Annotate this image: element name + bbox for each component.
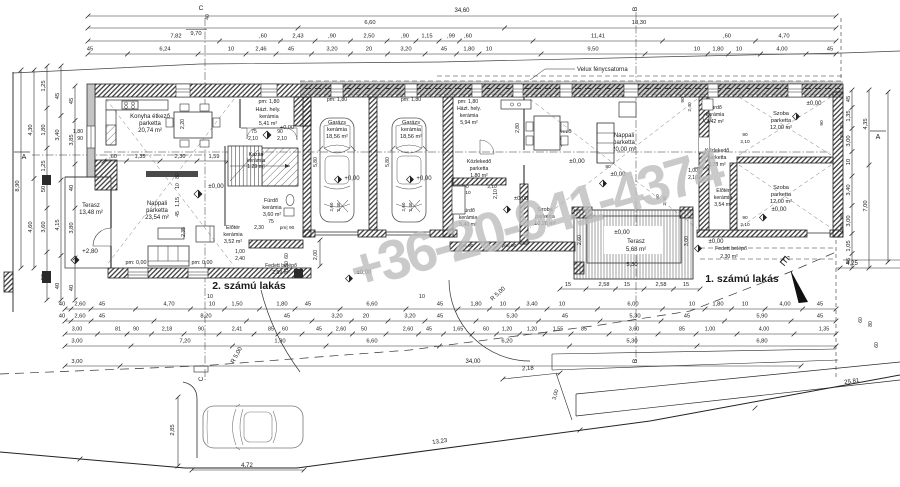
svg-text:,90: ,90: [401, 34, 409, 40]
svg-text:4,60: 4,60: [28, 221, 34, 232]
wall hallway right apartment: [699, 97, 709, 230]
svg-text:11,41: 11,41: [591, 34, 605, 40]
section mark C bottom: [198, 376, 205, 381]
wall eloter south: [249, 240, 303, 248]
right outer chain line: [887, 92, 889, 262]
vertical dashed line right lot: [835, 240, 837, 380]
svg-text:90: 90: [680, 97, 686, 103]
furdo 5,40 label: [459, 208, 478, 228]
svg-text:12,00 m²: 12,00 m²: [770, 125, 792, 131]
svg-text:2,58: 2,58: [599, 282, 610, 288]
door arcs hazt hely: [247, 128, 258, 139]
svg-text:±0,00: ±0,00: [208, 183, 224, 190]
terrace dim row: [558, 282, 703, 291]
svg-text:parketta: parketta: [470, 166, 489, 172]
below garage level mark: [346, 270, 373, 282]
svg-text:10: 10: [846, 159, 852, 165]
svg-text:40: 40: [59, 302, 65, 308]
svg-text:kerámia: kerámia: [327, 127, 348, 133]
svg-text:90: 90: [198, 327, 204, 333]
svg-text:18,56 m²: 18,56 m²: [400, 134, 422, 140]
garage 1 level: [335, 176, 361, 183]
wall middle horizontal bath: [452, 178, 506, 185]
svg-text:15: 15: [624, 282, 630, 288]
floor level diamond left apt: [194, 190, 202, 198]
svg-text:Házt. hely.: Házt. hely.: [457, 106, 481, 112]
skylight dashed outline: [300, 80, 843, 82]
garage 1 dims rot: [313, 157, 341, 212]
pm 90 labels middle: [459, 243, 517, 249]
left black wall marker 2: [42, 271, 51, 283]
wall garage west: [303, 97, 311, 237]
svg-text:10: 10: [419, 294, 425, 300]
upper outside dashed line: [437, 75, 843, 77]
svg-text:60: 60: [284, 253, 290, 259]
svg-text:1,20: 1,20: [502, 327, 513, 333]
door arc hallway: [694, 153, 709, 168]
svg-text:10: 10: [500, 302, 506, 308]
svg-text:parketta: parketta: [771, 118, 792, 124]
kitchen counter right: [501, 100, 531, 109]
car in garage 2: [391, 118, 428, 222]
svg-text:75: 75: [268, 219, 274, 225]
svg-text:Garázs: Garázs: [328, 120, 346, 126]
wall haz kitchen left apt thin: [239, 99, 241, 128]
label 3,00 site rot: [552, 373, 572, 420]
svg-text:2,18: 2,18: [522, 366, 535, 373]
kitchen counter left: [106, 100, 168, 145]
svg-text:kerámia: kerámia: [460, 113, 479, 119]
terrace label box: [604, 226, 662, 254]
svg-text:4,15: 4,15: [55, 219, 61, 230]
section line A-A through left apt: [104, 151, 830, 153]
svg-text:4,00: 4,00: [759, 327, 770, 333]
svg-text:1,25: 1,25: [41, 80, 47, 91]
stairs: [228, 146, 290, 186]
fedett belepo diamond: [695, 245, 702, 252]
svg-text:1,35: 1,35: [135, 154, 146, 160]
svg-text:90: 90: [839, 213, 844, 219]
dining table left: [166, 104, 220, 147]
svg-text:pm| 90: pm| 90: [280, 225, 295, 231]
svg-text:60: 60: [858, 317, 864, 323]
svg-text:45: 45: [817, 314, 823, 320]
svg-text:4,35: 4,35: [863, 118, 869, 129]
svg-text:kerámia: kerámia: [401, 127, 422, 133]
szoba 10,26 diamond: [504, 206, 511, 213]
svg-text:45: 45: [284, 314, 290, 320]
strip B walkway: [576, 362, 900, 416]
garage 2 x mark: [409, 200, 420, 212]
hazt hely floor diamond: [263, 131, 271, 139]
svg-text:2,69 m²: 2,69 m²: [272, 270, 290, 276]
wall thin terrace side: [110, 190, 112, 228]
svg-text:45: 45: [437, 314, 443, 320]
svg-text:34,00: 34,00: [465, 359, 481, 365]
section line A dash-dot left: [32, 154, 205, 156]
svg-text:40: 40: [69, 285, 75, 291]
svg-text:3,00: 3,00: [72, 327, 83, 333]
svg-text:6,60: 6,60: [366, 339, 377, 345]
svg-text:1,55: 1,55: [553, 327, 564, 333]
svg-text:9,70: 9,70: [190, 31, 201, 37]
dashed setback line: [0, 252, 836, 374]
svg-text:kerámia: kerámia: [262, 205, 281, 211]
svg-text:20: 20: [366, 47, 372, 53]
svg-text:2,10: 2,10: [740, 139, 750, 145]
svg-text:2,60: 2,60: [336, 327, 347, 333]
windows top wall: [176, 84, 802, 97]
terrace floor diamond: [71, 256, 79, 264]
svg-text:40: 40: [59, 314, 65, 320]
svg-text:2,20: 2,20: [180, 119, 186, 129]
svg-text:45: 45: [846, 96, 852, 102]
bottom dim row B: [59, 314, 839, 324]
svg-text:45: 45: [684, 314, 690, 320]
svg-text:5,90: 5,90: [756, 314, 767, 320]
door arc middle block: [480, 140, 494, 154]
left dim chain 45 3,40 4,15: [55, 64, 63, 303]
eloter dims: [235, 249, 290, 271]
wall between garages: [369, 97, 377, 230]
svg-text:2,18: 2,18: [162, 327, 173, 333]
label 9,70 below row2: [186, 26, 300, 37]
top dimension row 1 total 34,60: [86, 8, 839, 18]
svg-text:20: 20: [363, 314, 369, 320]
kozlekedo 1,80 label: [467, 159, 491, 179]
svg-text:2,60: 2,60: [403, 327, 414, 333]
svg-text:50: 50: [361, 327, 367, 333]
svg-text:6,60: 6,60: [364, 20, 375, 26]
svg-text:18,56 m²: 18,56 m²: [326, 134, 348, 140]
garage 2 room: [400, 97, 422, 140]
svg-text:2,10: 2,10: [277, 136, 287, 142]
wall right apartment south: [697, 230, 807, 237]
fedett belepo left label: [265, 263, 297, 276]
svg-text:2,10: 2,10: [248, 136, 258, 142]
left dim chain 1,25 1,80 1,25 3,60: [41, 64, 49, 303]
svg-text:2,41: 2,41: [232, 327, 243, 333]
label 4,25: [836, 261, 900, 270]
wall bottom left apartment: [108, 268, 311, 278]
section mark B top: [632, 7, 639, 362]
wall pier hazt hely right: [294, 97, 311, 126]
wall szoba divider right: [737, 157, 833, 163]
svg-text:Konyha étkező: Konyha étkező: [130, 114, 170, 120]
svg-text:C: C: [199, 5, 204, 12]
garage 1 room: [326, 97, 348, 140]
svg-text:45: 45: [87, 47, 93, 53]
svg-text:Házt. hely.: Házt. hely.: [255, 107, 280, 113]
room label nappali left: [145, 201, 169, 221]
svg-text:+2,80: +2,80: [82, 248, 98, 255]
terrace left outline: [65, 177, 111, 268]
svg-text:6,80: 6,80: [756, 339, 767, 345]
svg-text:5,30: 5,30: [506, 314, 517, 320]
section mark A left: [14, 152, 30, 161]
nappali right label: [611, 133, 636, 178]
svg-text:1,80: 1,80: [41, 124, 47, 135]
svg-text:18,30: 18,30: [632, 20, 647, 26]
svg-text:±0,00: ±0,00: [709, 239, 725, 245]
svg-text:5,94 m²: 5,94 m²: [460, 120, 478, 126]
svg-text:Fedett belépő: Fedett belépő: [265, 263, 297, 269]
svg-text:parketta: parketta: [613, 140, 635, 146]
svg-text:Terasz: Terasz: [627, 239, 645, 245]
svg-text:1,25: 1,25: [41, 160, 47, 171]
terrace deck right apartment: [574, 210, 693, 279]
pm labels bottom left apt: [126, 260, 213, 266]
svg-text:,60: ,60: [259, 34, 267, 40]
svg-text:5,80: 5,80: [385, 157, 391, 167]
svg-text:5,68 m²: 5,68 m²: [626, 247, 646, 253]
bottom dim row C: [63, 327, 839, 337]
svg-text:pm: 0,00: pm: 0,00: [192, 260, 213, 266]
svg-text:,60: ,60: [723, 34, 731, 40]
svg-text:7,82: 7,82: [170, 34, 181, 40]
car on parking: [203, 404, 303, 450]
svg-text:2,80: 2,80: [515, 123, 521, 133]
sofa left apartment: [148, 246, 189, 266]
nappali diamond: [600, 180, 607, 187]
svg-text:4,30: 4,30: [28, 124, 34, 135]
svg-text:45: 45: [426, 327, 432, 333]
svg-text:Közlekedő: Közlekedő: [467, 159, 491, 165]
svg-text:90: 90: [742, 215, 748, 221]
svg-text:3,20: 3,20: [400, 47, 411, 53]
dashed room diagonals left apt: [106, 99, 234, 266]
svg-text:4,00: 4,00: [776, 47, 787, 53]
svg-text:3,00: 3,00: [71, 339, 82, 345]
svg-text:1,35: 1,35: [846, 110, 852, 121]
svg-text:10: 10: [486, 47, 492, 53]
svg-text:10: 10: [175, 183, 181, 189]
svg-text:,60: ,60: [464, 34, 472, 40]
car in garage 1: [319, 118, 356, 222]
svg-text:4,72: 4,72: [241, 463, 253, 469]
svg-text:2,46: 2,46: [255, 47, 266, 53]
svg-text:2,40: 2,40: [336, 202, 341, 211]
skylight gray band velux: [300, 81, 843, 95]
room label konyha etkezo left: [130, 114, 170, 134]
wall middle thin upper: [523, 97, 525, 150]
bottom dim row E 34,00: [63, 359, 804, 368]
svg-text:8,20: 8,20: [200, 314, 211, 320]
svg-text:Előtér: Előtér: [226, 225, 240, 231]
svg-text:10: 10: [207, 294, 213, 300]
svg-text:3,40: 3,40: [55, 129, 61, 140]
svg-text:3,00: 3,00: [71, 359, 82, 365]
svg-text:10: 10: [209, 302, 215, 308]
svg-text:1,80: 1,80: [463, 47, 474, 53]
svg-text:23,54 m²: 23,54 m²: [145, 215, 169, 221]
svg-text:3,00: 3,00: [846, 135, 852, 146]
furdo 3,42 label: [706, 105, 725, 125]
svg-text:3,20: 3,20: [404, 314, 415, 320]
svg-text:1,59: 1,59: [209, 154, 220, 160]
svg-text:20: 20: [839, 123, 844, 129]
dashed diagonals szoba1: [739, 97, 831, 155]
svg-text:A: A: [876, 134, 881, 141]
svg-text:10: 10: [742, 302, 748, 308]
sofa right apartment: [597, 123, 614, 163]
svg-text:7,20: 7,20: [179, 339, 190, 345]
strip A walkway: [552, 349, 838, 370]
szoba 2 diamond: [760, 214, 767, 221]
door gap hallway: [699, 137, 709, 153]
svg-text:45: 45: [55, 93, 61, 99]
svg-text:Nappali: Nappali: [147, 201, 167, 207]
window bottom 1: [128, 268, 148, 278]
svg-text:Fedett belépő: Fedett belépő: [715, 246, 747, 252]
svg-text:2,10: 2,10: [740, 222, 750, 228]
svg-text:3,54 m²: 3,54 m²: [714, 202, 732, 208]
coffee table left: [158, 228, 184, 239]
svg-text:2,43: 2,43: [292, 34, 303, 40]
dims near kozlekedo: [461, 184, 497, 196]
svg-text:90: 90: [277, 129, 283, 135]
interior vdim left x181: [175, 173, 187, 237]
svg-text:A: A: [22, 154, 27, 161]
svg-text:5,41 m²: 5,41 m²: [259, 121, 277, 127]
svg-text:85: 85: [679, 327, 685, 333]
svg-text:pm: 0,00: pm: 0,00: [126, 260, 147, 266]
svg-text:1,05: 1,05: [846, 240, 852, 251]
north arrow: [777, 252, 808, 303]
svg-text:parketta: parketta: [139, 121, 161, 127]
svg-text:2,35: 2,35: [181, 227, 187, 237]
svg-text:45: 45: [316, 327, 322, 333]
wall top outer: [95, 84, 843, 97]
svg-text:40: 40: [69, 185, 75, 191]
svg-text:2. számú lakás: 2. számú lakás: [212, 280, 286, 292]
bathtub middle: [452, 186, 465, 214]
svg-text:90: 90: [742, 132, 748, 138]
svg-text:6,60: 6,60: [366, 302, 377, 308]
armchair left: [196, 226, 214, 242]
svg-text:1,00: 1,00: [705, 327, 716, 333]
svg-text:1,80: 1,80: [712, 47, 723, 53]
svg-text:1,35: 1,35: [819, 327, 830, 333]
dim 4,72: [190, 463, 307, 472]
svg-text:60: 60: [483, 327, 489, 333]
wall garage east: [443, 97, 453, 237]
dashed lot line top right: [840, 18, 842, 96]
svg-text:85: 85: [268, 327, 274, 333]
svg-text:90: 90: [819, 120, 825, 126]
svg-text:±0,00: ±0,00: [569, 158, 585, 165]
wall right outer: [833, 92, 843, 237]
top dimension row 2: [86, 20, 839, 30]
svg-text:pm: 1,80: pm: 1,80: [401, 97, 421, 103]
fedett belepo right: [700, 239, 836, 260]
wall left outer gray strip: [87, 84, 95, 177]
svg-text:1,15: 1,15: [175, 197, 181, 207]
svg-text:45: 45: [562, 314, 568, 320]
svg-text:parketta: parketta: [146, 208, 168, 214]
svg-text:6,20: 6,20: [501, 339, 512, 345]
terrain boundary line top: [13, 51, 900, 73]
dims 90 2,40 rot terrace door: [680, 97, 693, 112]
furdo left label: [254, 198, 294, 231]
svg-text:10: 10: [228, 47, 234, 53]
svg-text:B: B: [632, 7, 639, 11]
svg-text:2,30: 2,30: [254, 225, 264, 231]
svg-text:45: 45: [99, 314, 105, 320]
svg-text:3,42 m²: 3,42 m²: [706, 119, 724, 125]
svg-text:1,80: 1,80: [470, 302, 481, 308]
svg-text:10: 10: [689, 302, 695, 308]
svg-text:3,60 m²: 3,60 m²: [263, 212, 281, 218]
dashed diagonals right big room: [530, 99, 697, 228]
svg-text:6,24: 6,24: [159, 47, 171, 53]
svg-text:1,80: 1,80: [712, 302, 723, 308]
terrace labels: [79, 203, 103, 255]
svg-text:3,85: 3,85: [69, 134, 75, 145]
driveway arc R5,00 left: [261, 290, 300, 372]
svg-text:1,80: 1,80: [276, 302, 287, 308]
svg-text:2,40: 2,40: [408, 202, 413, 211]
small dims right apt: [605, 120, 844, 232]
svg-text:kerámia: kerámia: [706, 112, 725, 118]
svg-text:5,30: 5,30: [626, 339, 637, 345]
svg-text:3,60: 3,60: [629, 327, 640, 333]
svg-text:13,48 m²: 13,48 m²: [79, 210, 103, 216]
middle interior dims rot: [493, 123, 521, 199]
hazt hely door dims: [248, 129, 287, 142]
line right lot edge: [843, 259, 900, 261]
section mark C top: [199, 5, 205, 380]
svg-text:9,50: 9,50: [587, 47, 598, 53]
dim 2,00 below garage: [313, 238, 322, 269]
parking bay: [183, 382, 197, 458]
svg-text:90: 90: [77, 136, 83, 142]
svg-text:2,50: 2,50: [363, 34, 374, 40]
svg-text:1,20: 1,20: [527, 327, 538, 333]
svg-text:Szoba: Szoba: [773, 111, 790, 117]
svg-text:1,65: 1,65: [453, 327, 464, 333]
svg-text:1. számú lakás: 1. számú lakás: [705, 273, 779, 285]
terrace door arc: [93, 228, 111, 246]
svg-text:kerámia: kerámia: [223, 232, 242, 238]
svg-text:+0,00: +0,00: [344, 176, 360, 182]
svg-text:10: 10: [736, 47, 742, 53]
svg-text:2,40: 2,40: [235, 256, 245, 262]
svg-text:6,00: 6,00: [627, 302, 638, 308]
top dimension row 4: [86, 47, 839, 57]
stair wall thin: [224, 146, 226, 226]
svg-text:40: 40: [55, 283, 61, 289]
szoba 1 diamond: [793, 113, 800, 120]
left dim chain 8,90: [15, 68, 23, 271]
svg-text:Nappali: Nappali: [614, 133, 634, 139]
svg-text:2,60: 2,60: [74, 314, 85, 320]
dashed diagonals szoba2: [739, 165, 831, 228]
svg-text:45: 45: [441, 47, 447, 53]
svg-text:Velux fénycsatorna: Velux fénycsatorna: [577, 67, 628, 73]
svg-text:45: 45: [175, 211, 181, 217]
svg-text:3,80: 3,80: [69, 222, 75, 233]
svg-text:4,25: 4,25: [846, 261, 858, 267]
svg-text:pm: 1,80: pm: 1,80: [327, 97, 347, 103]
svg-text:45: 45: [437, 302, 443, 308]
label 2,18 site: [501, 366, 563, 382]
svg-text:40: 40: [205, 14, 211, 20]
svg-text:45: 45: [827, 47, 833, 53]
svg-text:±0,00: ±0,00: [614, 229, 630, 236]
dims 60 2,40 rot: [655, 194, 668, 206]
right dim chain 45 1,35 3,00 3,40 3,00 1,05: [846, 88, 854, 271]
